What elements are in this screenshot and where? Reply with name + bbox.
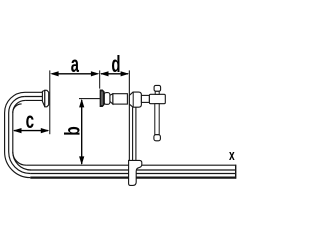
spindle flange bbox=[104, 93, 110, 105]
svg-text:c: c bbox=[26, 108, 35, 134]
plate highlight bbox=[101, 92, 103, 106]
bent arm outer line bbox=[5, 92, 31, 177]
arrow d right bbox=[121, 71, 130, 76]
rail bottom thick line bbox=[30, 177, 235, 179]
rail middle line 2 bbox=[30, 173, 235, 175]
svg-text:a: a bbox=[71, 53, 79, 78]
arrow b bottom bbox=[79, 156, 84, 165]
fixed jaw pad flare bbox=[42, 90, 44, 107]
fixed jaw pad disc bbox=[45, 90, 49, 107]
svg-text:d: d bbox=[111, 52, 120, 78]
handle knob bbox=[154, 85, 161, 91]
dimension line b bbox=[81, 100, 83, 164]
svg-text:b: b bbox=[60, 126, 84, 135]
extension line shared a/c bbox=[49, 70, 51, 134]
inner corner arc bottom (rail top face into bend) bbox=[13, 152, 26, 165]
spindle cone bbox=[110, 94, 113, 104]
upper arm middle line bbox=[25, 96, 43, 98]
svg-text:x: x bbox=[229, 146, 235, 164]
rail middle line 1 bbox=[30, 169, 235, 171]
arrow a left bbox=[50, 71, 59, 76]
handle knob neck bbox=[155, 91, 159, 94]
dimension line d bbox=[101, 73, 128, 75]
sliding arm right edge bbox=[135, 107, 137, 160]
rail top line bbox=[26, 164, 236, 166]
upper arm bottom face bbox=[25, 99, 42, 101]
sliding arm vertical line (extension+block face+arm edge) bbox=[128, 70, 130, 160]
extension line b top bbox=[79, 98, 100, 100]
bent arm inner line bbox=[13, 100, 31, 170]
handle rod ball bbox=[154, 135, 161, 141]
handle hub bbox=[149, 94, 165, 103]
inner corner stub arc top bbox=[13, 104, 22, 113]
arrow a right bbox=[91, 71, 100, 76]
rail right end cap bbox=[235, 165, 237, 179]
spindle head block bbox=[129, 92, 141, 107]
spindle shaft bbox=[113, 94, 128, 104]
upper arm top face bbox=[25, 91, 42, 93]
spindle pressure pad plate bbox=[100, 90, 104, 106]
arrow b top bbox=[79, 99, 84, 108]
handle rod bbox=[155, 104, 159, 135]
dimension line c bbox=[14, 130, 48, 132]
dimension line a bbox=[52, 73, 98, 75]
extension line pad face bbox=[99, 70, 101, 88]
spindle shaft stub right of block bbox=[141, 95, 149, 102]
sliding arm middle line bbox=[132, 107, 134, 160]
arrow c right bbox=[41, 128, 50, 133]
arrow c left bbox=[13, 128, 22, 133]
block inner line bbox=[132, 92, 134, 107]
sliding bracket foot bbox=[129, 160, 142, 185]
arrow d left bbox=[100, 71, 109, 76]
bent arm middle line bbox=[9, 97, 31, 174]
